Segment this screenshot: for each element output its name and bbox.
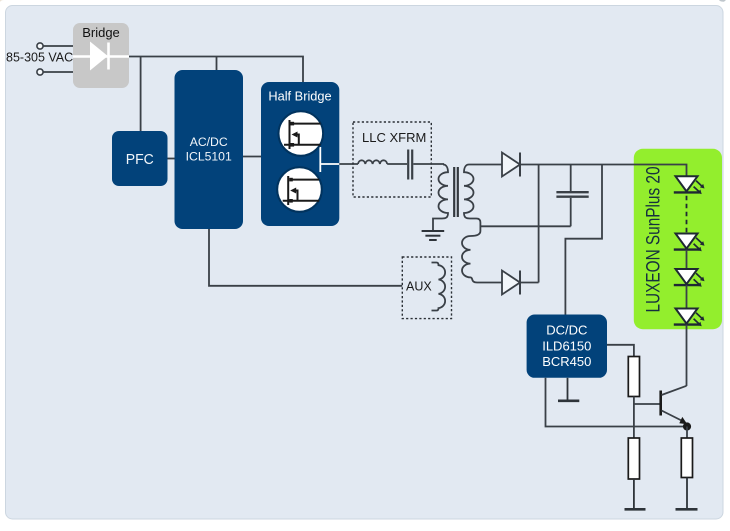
resistor R1: [628, 357, 639, 397]
transistor Q1: [661, 386, 688, 424]
ground R3: [676, 478, 698, 510]
wire DC/DC feedback to emitter node: [546, 378, 688, 427]
svg-text:Half Bridge: Half Bridge: [268, 89, 331, 104]
diode D1 (top rectifier): [483, 153, 520, 177]
wire inductor to capacitor: [387, 163, 407, 165]
svg-text:LLC XFRM: LLC XFRM: [362, 130, 426, 145]
svg-text:PFC: PFC: [126, 152, 154, 168]
svg-text:Bridge: Bridge: [82, 25, 120, 40]
wire center-tap return: [480, 225, 570, 227]
AUX dashed box: [402, 257, 451, 319]
wire drop to AC/DC: [216, 57, 218, 71]
svg-text:DC/DC: DC/DC: [546, 323, 587, 338]
ground DC/DC: [558, 378, 579, 401]
wire LED3 to LED4: [686, 285, 688, 308]
transformer T1 primary winding: [433, 165, 448, 231]
transistor M1 (high-side MOSFET): [279, 111, 324, 156]
DC/DC ILD6150 BCR450 box: [527, 315, 607, 378]
half bridge box: [261, 82, 339, 226]
inductor aux winding: [432, 263, 446, 311]
wire capacitor to transformer: [413, 163, 444, 165]
diode D2 (bottom rectifier): [502, 271, 539, 295]
svg-text:ICL5101: ICL5101: [186, 150, 232, 164]
corner artifact top-right: [719, 0, 726, 2]
inductor Lr: [358, 160, 387, 164]
wire LED dashed continuation: [686, 196, 688, 233]
wire diode join vertical: [538, 165, 540, 283]
node emitter junction: [683, 422, 691, 430]
capacitor Cout: [556, 165, 588, 227]
svg-text:85-305 VAC: 85-305 VAC: [6, 51, 73, 65]
LED D6: [674, 309, 705, 327]
capacitor Cr: [408, 150, 412, 180]
transformer T1 secondary winding: [464, 165, 483, 232]
svg-text:AUX: AUX: [406, 280, 432, 294]
wire drop to PFC: [140, 57, 142, 132]
ground R2: [625, 479, 646, 509]
wire AC input bottom: [43, 71, 73, 73]
bridge rectifier box: [73, 23, 129, 88]
wire bridge output rail: [129, 57, 303, 83]
op-amp AC/DC ICL5101 box: [175, 70, 244, 229]
LED D4: [674, 234, 705, 252]
resistor R2: [628, 438, 639, 479]
wire LED2 to LED3: [686, 250, 688, 269]
wire output to DC/DC: [565, 165, 602, 315]
transistor M2 (low-side MOSFET): [277, 167, 322, 212]
wire PFC to AC/DC: [168, 158, 175, 160]
wire half bridge to LLC: [339, 163, 358, 165]
diode symbol in bridge: [73, 43, 129, 70]
wire AC/DC to Half Bridge: [243, 156, 261, 158]
LED D3: [674, 176, 705, 194]
svg-text:BCR450: BCR450: [542, 354, 591, 369]
wire half-bridge midpoint (white): [320, 147, 339, 172]
svg-text:LUXEON SunPlus 20: LUXEON SunPlus 20: [644, 167, 665, 313]
transformer lower secondary winding: [462, 231, 502, 283]
wire AC input top: [43, 45, 73, 47]
node AC input terminals: [37, 43, 43, 75]
wire DC/DC output to R1: [607, 345, 634, 357]
svg-text:ILD6150: ILD6150: [542, 338, 591, 353]
wire rectified output rail: [520, 165, 687, 178]
wire R1 to base / R2: [634, 397, 660, 439]
svg-text:AC/DC: AC/DC: [190, 135, 228, 149]
LLC XFRM dashed box: [353, 122, 431, 197]
wire AC/DC to AUX: [209, 229, 402, 286]
transformer core: [454, 167, 458, 217]
wire emitter node to R3: [686, 427, 688, 439]
corner artifact top-left: [0, 0, 4, 2]
resistor R3: [681, 438, 692, 478]
wire LED4 to collector: [686, 325, 688, 386]
ground primary: [422, 231, 445, 240]
PFC box: [112, 131, 168, 186]
LED module LUXEON SunPlus 20: [634, 149, 722, 329]
LED D5: [674, 269, 705, 287]
